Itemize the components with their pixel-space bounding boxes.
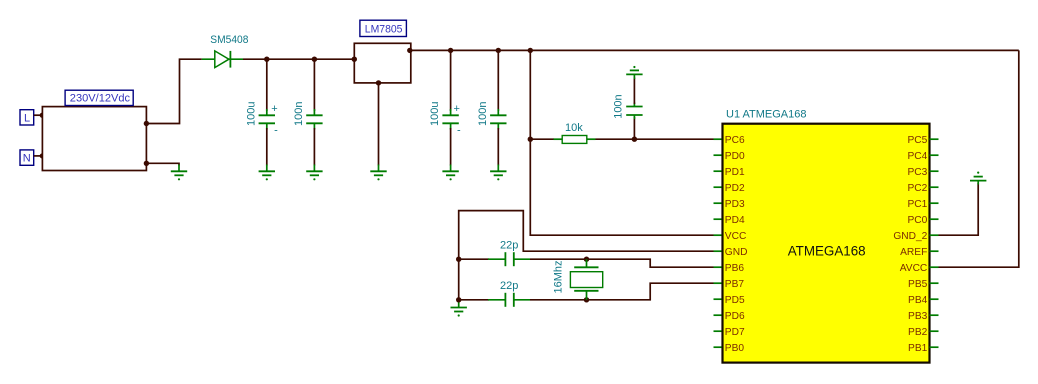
svg-text:PC2: PC2 [907,183,927,194]
crystal X1 16Mhz [570,259,602,300]
ground C2 [306,165,322,181]
wire C4 to ground [497,128,499,166]
pin PC0 [930,218,939,220]
svg-text:-: - [274,125,278,137]
wire N stub [34,155,43,157]
capacitor C5 100n [626,103,642,120]
pin PB6 [714,266,722,268]
wire VCC vertical [530,50,713,235]
wire C3 drop [450,50,452,111]
pin PD3 [714,202,722,204]
node 10k tap [528,137,533,142]
node crystal bottom [584,297,589,302]
node XC1 left [456,257,461,262]
node VCC tap [528,48,533,53]
svg-text:PB3: PB3 [908,311,928,322]
svg-text:ATMEGA168: ATMEGA168 [788,243,866,258]
wire transformer output top [146,59,201,123]
node transformer bottom [144,161,149,166]
svg-text:10k: 10k [565,122,583,134]
svg-text:+: + [271,103,277,115]
svg-text:PB0: PB0 [725,343,745,354]
pin PC2 [930,186,939,188]
svg-text:22p: 22p [500,240,518,252]
wire 10k left [530,138,554,140]
svg-text:PB4: PB4 [908,295,928,306]
svg-text:PC4: PC4 [907,151,927,162]
svg-text:100u: 100u [429,102,441,126]
wire 22p top left [459,258,489,260]
wire C2 to ground [313,128,315,166]
pin PC4 [930,154,939,156]
pin PB7 [714,282,722,284]
wire L stub [34,114,43,116]
capacitor C4 100n [490,109,506,130]
svg-text:230V/12Vdc: 230V/12Vdc [70,93,131,105]
svg-text:LM7805: LM7805 [365,24,403,36]
pin PD7 [714,330,722,332]
wire 22p bottom left [459,299,489,301]
pin PD5 [714,298,722,300]
pin PC3 [930,170,939,172]
svg-text:L: L [24,113,30,125]
svg-text:PD2: PD2 [725,183,745,194]
svg-text:PD7: PD7 [725,327,745,338]
wire C3 to ground [450,128,452,166]
ground under transformer [171,165,187,181]
pin AREF [930,250,939,252]
ground C4 [490,165,506,181]
pin PD6 [714,314,722,316]
pin PC1 [930,202,939,204]
pin PC5 [930,138,939,140]
capacitor C3 100u [442,103,461,137]
svg-text:PC3: PC3 [907,167,927,178]
svg-text:PD0: PD0 [725,151,745,162]
regulator label box LM7805 [360,20,407,36]
svg-text:100u: 100u [245,102,257,126]
svg-text:+: + [453,103,459,115]
svg-text:16Mhz: 16Mhz [552,260,564,293]
pin PD2 [714,186,722,188]
pin PB1 [930,346,939,348]
pin PD1 [714,170,722,172]
regulator U2 LM7805 body [354,43,411,83]
svg-text:PB6: PB6 [725,263,745,274]
svg-text:100n: 100n [293,102,305,126]
pin PB0 [714,346,722,348]
node XC2 left [456,297,461,302]
svg-text:PD4: PD4 [725,215,745,226]
svg-text:SM5408: SM5408 [210,34,248,46]
wire C5 upper [633,78,635,105]
node C4 top [496,48,501,53]
pin PD0 [714,154,722,156]
node N junction [40,153,45,158]
node transformer output [144,121,149,126]
wire LM7805 gnd drop [378,83,380,166]
svg-text:AVCC: AVCC [900,263,928,274]
wire 22p top right to PB6 [530,259,714,267]
node C2 top [312,57,317,62]
pin PB4 [930,298,939,300]
wire diode to LM7805 [243,58,354,60]
ground LM7805 [370,165,386,181]
pin AVCC [930,266,939,268]
svg-text:N: N [23,153,31,165]
terminal N [20,150,34,165]
svg-text:U1 ATMEGA168: U1 ATMEGA168 [726,108,807,120]
wire C2 drop [313,59,315,111]
wire transformer output bottom [146,163,179,165]
pin VCC [714,234,722,236]
capacitor C1 100u [259,103,279,137]
svg-text:AREF: AREF [900,247,927,258]
wire C1 to ground [266,128,268,166]
wire GND_2 to ground [939,183,979,235]
svg-text:PB7: PB7 [725,279,745,290]
resistor R1 10k [554,136,596,144]
svg-text:PC6: PC6 [725,135,745,146]
node LM7805 gnd pin [376,80,381,85]
ground C3 [442,165,458,181]
ground flipped GND_2 [970,172,986,185]
svg-text:PB1: PB1 [908,343,928,354]
svg-text:PC5: PC5 [907,135,927,146]
ground crystal net [451,301,467,317]
svg-text:22p: 22p [500,280,518,292]
wire C1 drop [266,59,268,111]
node C1 top [264,57,269,62]
wire +5V top rail [410,49,1019,51]
node L junction [40,113,45,118]
pin GND [714,250,722,252]
svg-text:PB5: PB5 [908,279,928,290]
transformer label box 230V/12Vdc [65,90,133,105]
svg-text:100n: 100n [477,102,489,126]
node C3 top [448,48,453,53]
transformer TR1 230V/12Vdc body [42,107,146,171]
pin PB2 [930,330,939,332]
capacitor C7 22p [488,293,530,307]
wire C4 drop [497,50,499,111]
wire AVCC to rail [939,50,1019,267]
wire 10k right [596,138,714,140]
node crystal top [584,257,589,262]
node LM7805 output [407,48,412,53]
svg-text:GND: GND [725,247,748,258]
ground flipped above C5 [626,66,642,79]
wire GND route from MCU [459,211,714,301]
IC U1 ATMEGA168 body [723,124,930,363]
pin PB5 [930,282,939,284]
terminal L [20,110,34,125]
ground C1 [259,165,275,181]
svg-text:GND_2: GND_2 [893,231,927,242]
diode D1 SM5408 [202,51,243,68]
svg-text:PD1: PD1 [725,167,745,178]
svg-text:PC1: PC1 [907,199,927,210]
svg-text:PB2: PB2 [908,327,928,338]
svg-text:-: - [457,125,461,137]
capacitor C6 22p [488,252,530,266]
svg-text:PD5: PD5 [725,295,745,306]
svg-text:PC0: PC0 [907,215,927,226]
capacitor C2 100n [306,109,322,130]
pin PC6 [714,138,722,140]
wire C5 lower [633,117,635,139]
node C5 bottom [632,137,637,142]
pin PB3 [930,314,939,316]
pin GND_2 [930,234,939,236]
svg-text:PD3: PD3 [725,199,745,210]
pin PD4 [714,218,722,220]
wire 22p bottom right to PB7 [530,283,714,300]
svg-text:VCC: VCC [725,231,747,242]
node LM7805 input [352,57,357,62]
svg-text:PD6: PD6 [725,311,745,322]
svg-text:100n: 100n [613,94,625,118]
